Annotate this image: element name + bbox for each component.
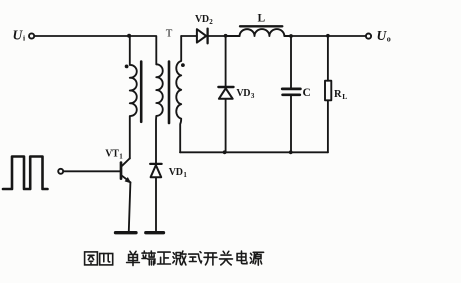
transistor VT1: [121, 158, 131, 231]
caption char 源: [250, 252, 263, 265]
svg-text:o: o: [387, 35, 391, 44]
wire rail to Uo: [291, 35, 366, 37]
svg-text:L: L: [258, 13, 266, 25]
inductor L: [226, 29, 291, 36]
caption char 正: [158, 252, 171, 264]
caption char 单: [127, 251, 140, 265]
svg-text:L: L: [342, 92, 347, 101]
caption 图四 单端正激式开关电源: [85, 251, 264, 266]
caption char 电: [237, 251, 247, 264]
diode VD1: [150, 164, 161, 231]
svg-text:VD: VD: [236, 88, 250, 99]
node dot VD3 top: [224, 34, 228, 38]
caption char 端: [142, 251, 155, 265]
transformer core bar left: [140, 62, 143, 122]
svg-text:i: i: [23, 34, 25, 43]
primary polarity dot: [125, 65, 129, 69]
node dot C bottom: [289, 150, 293, 154]
svg-text:3: 3: [251, 92, 255, 100]
svg-text:VD: VD: [195, 14, 209, 25]
resistor RL: [325, 36, 331, 152]
svg-text:VD: VD: [169, 167, 183, 178]
svg-text:C: C: [303, 87, 311, 99]
wire rail to reset winding: [129, 36, 156, 64]
transformer reset winding N2: [156, 64, 163, 163]
wire secondary top to VD2: [181, 35, 197, 37]
node dot VD3 bottom: [223, 150, 227, 154]
wire input rail: [34, 35, 129, 37]
transformer core bar right: [168, 62, 171, 124]
caption char 关: [220, 251, 233, 265]
caption char 式: [189, 252, 202, 263]
secondary polarity dot: [181, 63, 185, 67]
svg-text:R: R: [334, 89, 342, 100]
ground VT1 emitter: [116, 231, 137, 234]
diode VD3: [218, 36, 233, 152]
terminal Ui: [29, 33, 34, 38]
caption char 激: [173, 251, 186, 265]
square wave source symbol: [3, 157, 48, 190]
transformer secondary winding N3: [176, 36, 181, 152]
svg-text:T: T: [166, 28, 173, 40]
capacitor C: [282, 36, 300, 152]
svg-text:2: 2: [209, 18, 213, 26]
transistor VT1 base wire: [63, 170, 120, 172]
svg-text:1: 1: [119, 152, 123, 160]
inductor L core bar: [240, 25, 282, 27]
bottom rail wire: [180, 151, 328, 153]
node dot C top: [289, 34, 293, 38]
svg-text:VT: VT: [105, 149, 119, 160]
caption char 四: [100, 254, 113, 265]
terminal base input: [58, 169, 63, 174]
transformer T primary winding N1: [130, 36, 137, 158]
diode VD2: [197, 29, 226, 44]
ground VD1: [146, 231, 164, 234]
svg-text:1: 1: [183, 171, 187, 179]
caption char 图: [85, 252, 98, 265]
svg-text:U: U: [13, 28, 24, 43]
terminal Uo: [366, 34, 371, 39]
caption char 开: [204, 253, 217, 265]
node dot RL top: [326, 34, 330, 38]
node junction primary top: [127, 34, 131, 38]
